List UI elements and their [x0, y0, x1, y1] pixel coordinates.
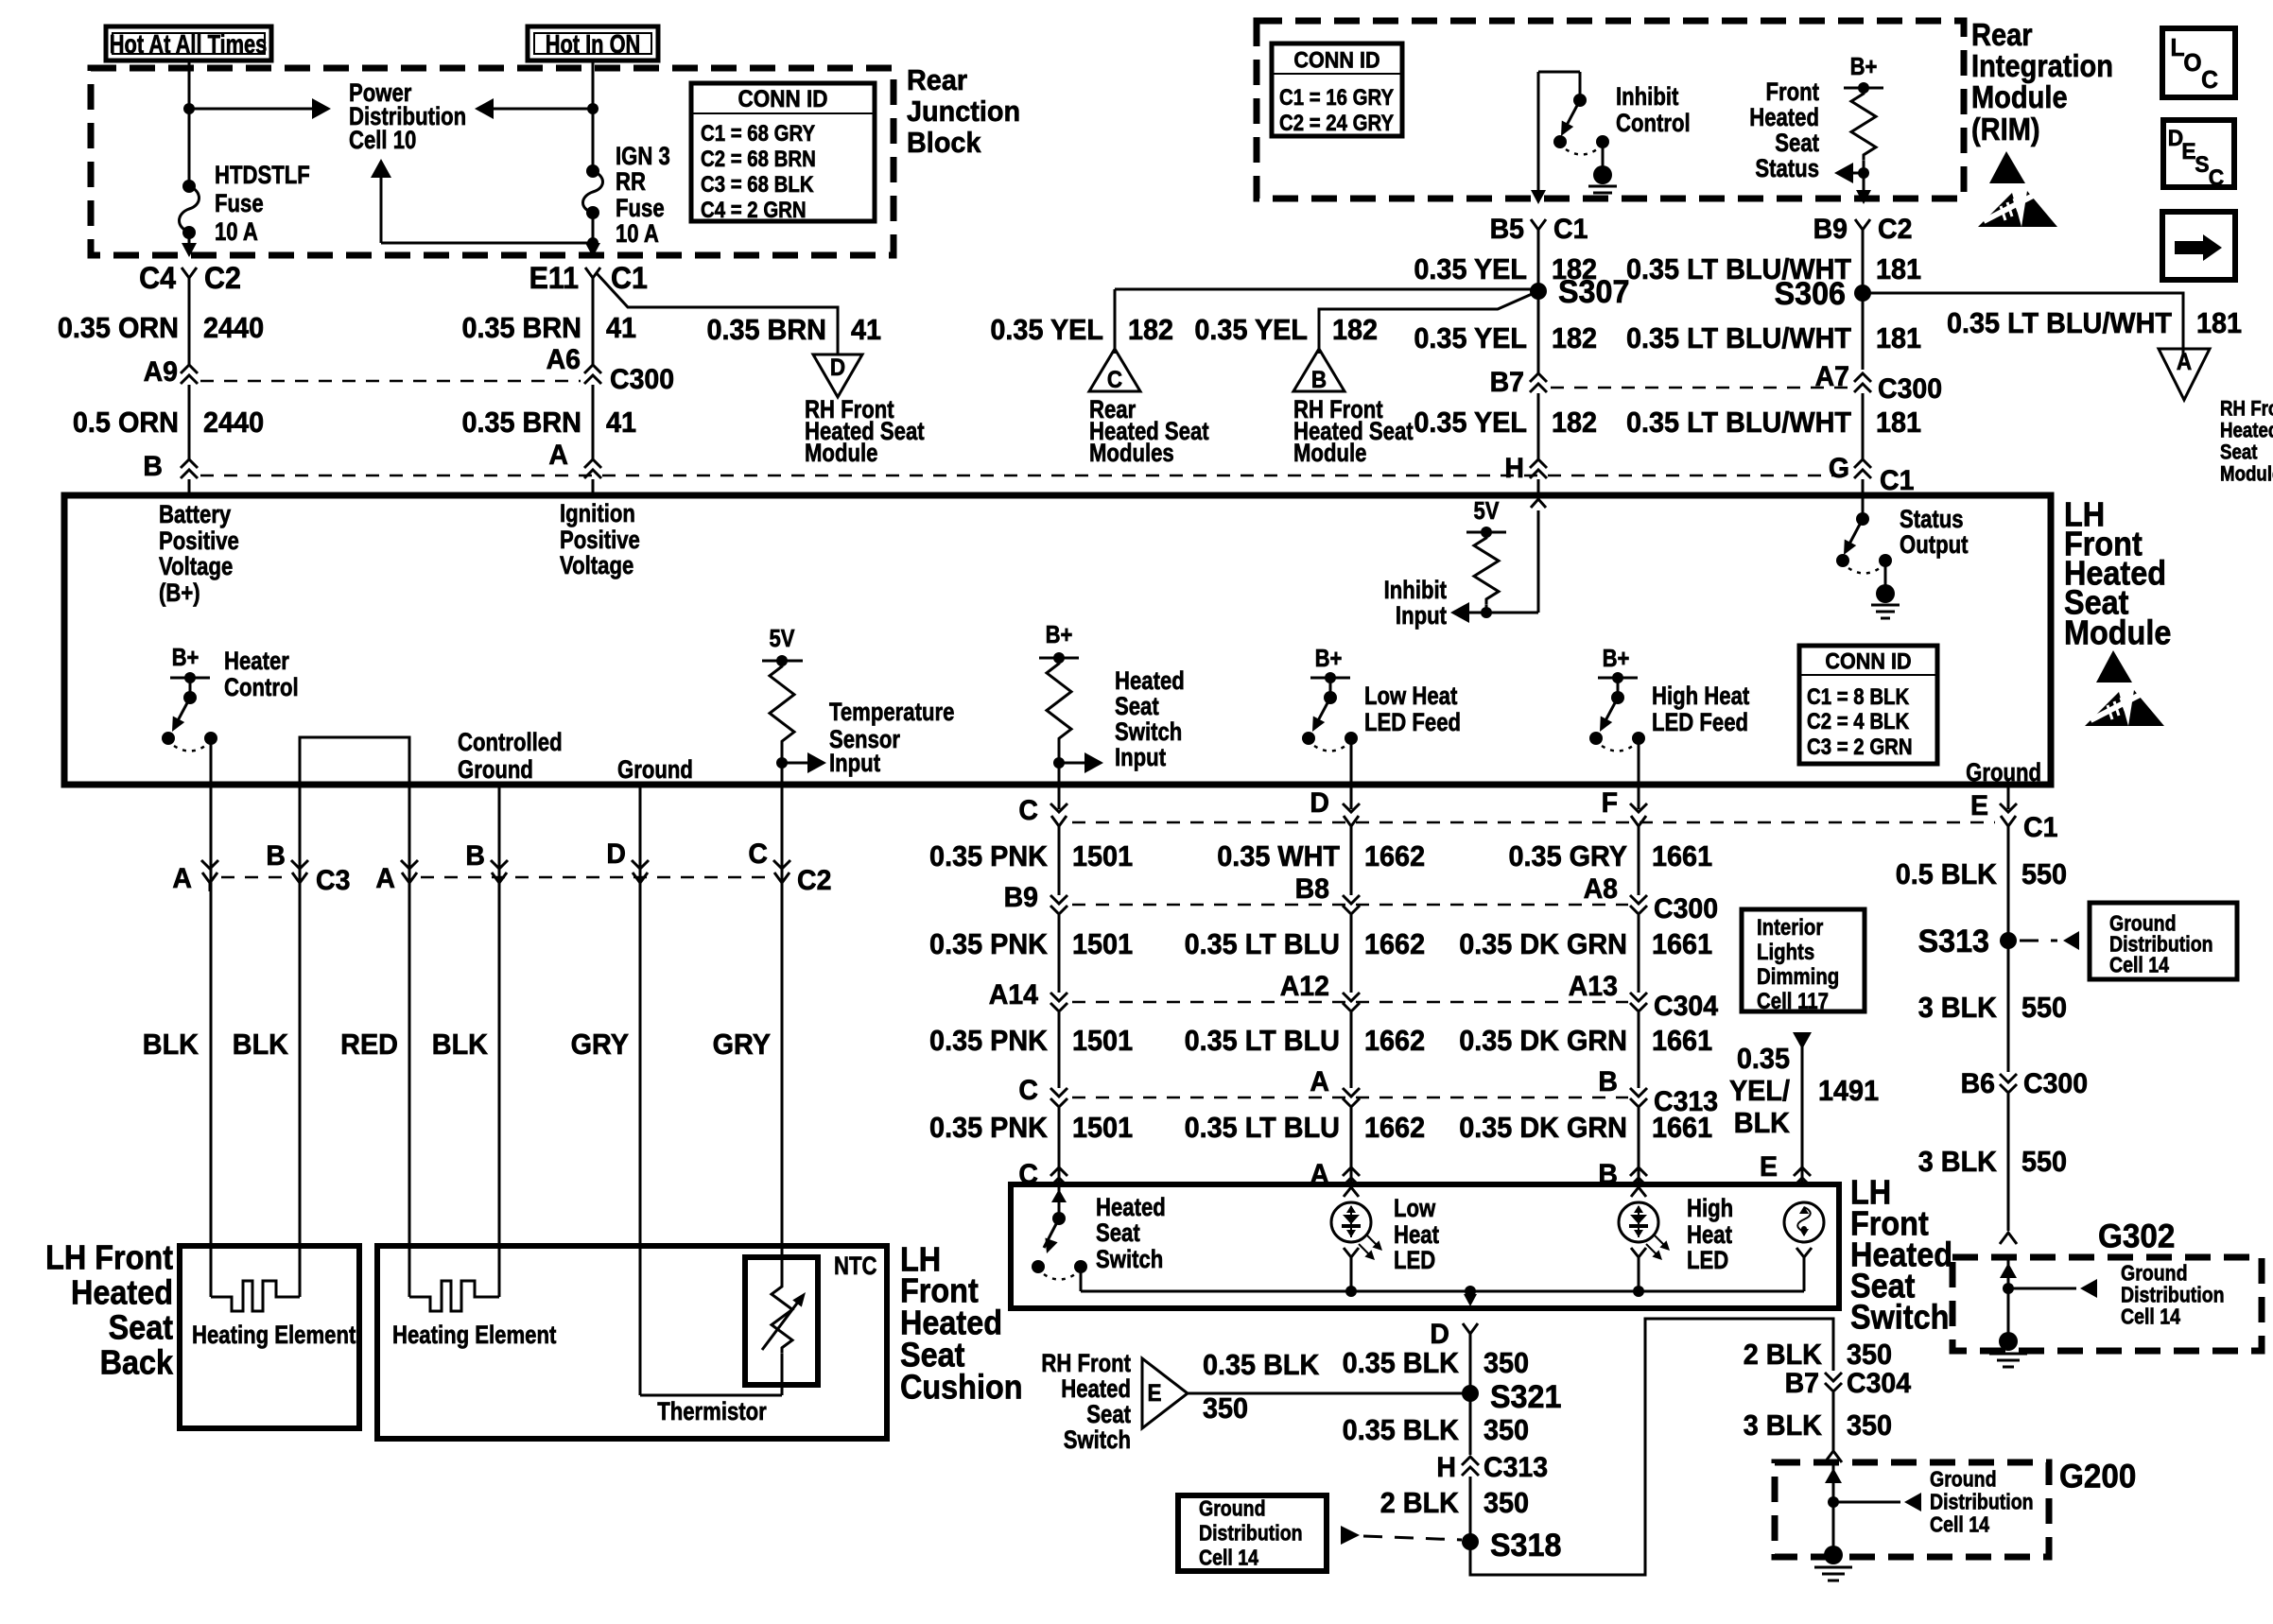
- svg-text:0.35 BLK: 0.35 BLK: [1203, 1349, 1320, 1381]
- svg-text:2440: 2440: [203, 312, 264, 344]
- svg-text:0.35 LT BLU: 0.35 LT BLU: [1185, 1112, 1340, 1144]
- label Heater Control: [224, 648, 299, 702]
- wire feedback to Power Distribution Cell 10: [371, 159, 593, 243]
- connector A C3: [172, 860, 218, 894]
- box Ground Distribution Cell 14 right: [2090, 903, 2237, 979]
- svg-text:RR: RR: [616, 168, 646, 197]
- svg-text:Cushion: Cushion: [900, 1369, 1023, 1407]
- svg-text:D: D: [830, 354, 845, 381]
- svg-text:C1: C1: [1880, 466, 1914, 497]
- connector A C1-module: [548, 441, 601, 478]
- wire ignition A6 to A: [592, 385, 595, 460]
- svg-text:C: C: [1107, 367, 1122, 393]
- svg-text:S321: S321: [1490, 1379, 1561, 1415]
- svg-text:3 BLK: 3 BLK: [1744, 1409, 1823, 1442]
- svg-text:A: A: [1310, 1067, 1329, 1098]
- svg-text:B9: B9: [1004, 883, 1038, 914]
- connector B6 C300: [1961, 1069, 2089, 1100]
- svg-text:(B+): (B+): [159, 579, 200, 608]
- wire D row2-3: [1350, 915, 1353, 993]
- svg-text:182: 182: [1128, 314, 1173, 346]
- wire bus exit D: [1464, 1291, 1477, 1306]
- svg-text:Switch: Switch: [1850, 1299, 1949, 1337]
- wire fuse output: [585, 213, 600, 257]
- label 1491: [1818, 1075, 1879, 1107]
- wire C304 to G200: [1832, 1392, 1835, 1451]
- svg-text:Output: Output: [1900, 531, 1968, 560]
- wire high heat output: [1638, 738, 1640, 782]
- arrow from interior lights: [1793, 1032, 1812, 1049]
- wire ignition feed from Hot In ON: [592, 60, 595, 171]
- label 0.35 YEL 182 triangle B: [1194, 314, 1378, 346]
- label 0.35 ORN 2440: [58, 312, 264, 344]
- svg-text:Seat: Seat: [2220, 441, 2258, 464]
- connector E switchbox: [1760, 1152, 1811, 1186]
- label NTC: [834, 1253, 877, 1281]
- dash arrow ground distribution: [2020, 931, 2079, 950]
- splice S313: [1918, 924, 2017, 959]
- svg-text:A13: A13: [1569, 972, 1618, 1003]
- wire heater control output: [210, 738, 213, 782]
- svg-text:GRY: GRY: [713, 1028, 771, 1061]
- svg-text:Junction: Junction: [907, 95, 1020, 128]
- svg-text:Modules: Modules: [1089, 440, 1174, 468]
- svg-text:0.35 LT BLU/WHT: 0.35 LT BLU/WHT: [1947, 307, 2172, 339]
- svg-text:B+: B+: [1315, 645, 1343, 672]
- svg-text:182: 182: [1552, 322, 1597, 354]
- svg-text:41: 41: [851, 314, 881, 346]
- svg-text:S307: S307: [1558, 274, 1629, 310]
- svg-text:C: C: [1018, 1160, 1038, 1191]
- svg-text:Heated: Heated: [1096, 1194, 1166, 1222]
- wire switch to bus: [1081, 1267, 1804, 1291]
- wire S313 down: [2007, 941, 2010, 1072]
- svg-text:Controlled: Controlled: [458, 729, 563, 757]
- svg-text:F: F: [1602, 788, 1618, 820]
- box Interior Lights Dimming Cell 117: [1742, 909, 1865, 1013]
- svg-text:Cell 10: Cell 10: [349, 127, 416, 155]
- label Thermistor: [657, 1398, 767, 1426]
- svg-text:BLK: BLK: [143, 1028, 200, 1061]
- label Ground pin E: [1966, 759, 2041, 787]
- svg-text:0.35 YEL: 0.35 YEL: [1194, 314, 1308, 346]
- svg-text:350: 350: [1484, 1347, 1529, 1379]
- label Temperature Sensor Input: [829, 699, 954, 778]
- label Ground Distribution Cell 14 G200: [1930, 1467, 2034, 1537]
- svg-text:Input: Input: [829, 750, 880, 778]
- wire G302 internal: [2000, 1257, 2017, 1341]
- svg-text:Module: Module: [1293, 440, 1366, 468]
- svg-text:B9: B9: [1813, 215, 1848, 246]
- svg-text:350: 350: [1484, 1414, 1529, 1446]
- svg-text:B: B: [1598, 1160, 1618, 1191]
- svg-text:Distribution: Distribution: [2121, 1283, 2225, 1307]
- svg-text:Heat: Heat: [1687, 1221, 1732, 1250]
- svg-text:RED: RED: [340, 1028, 398, 1061]
- connector A13 C304 row3: [1569, 972, 1719, 1023]
- connector A12 row3: [1280, 972, 1360, 1011]
- label 0.35 YEL 182 row1: [1414, 253, 1597, 285]
- label High Heat LED: [1687, 1195, 1733, 1275]
- svg-text:Thermistor: Thermistor: [657, 1398, 767, 1426]
- svg-text:H: H: [1436, 1453, 1456, 1484]
- wire triangle C drop: [1114, 289, 1117, 354]
- wire E C1 down: [2007, 828, 2010, 941]
- svg-text:C: C: [1018, 796, 1038, 827]
- label LH Front Heated Seat Cushion: [900, 1241, 1023, 1407]
- svg-text:Battery: Battery: [159, 501, 231, 529]
- svg-text:Seat: Seat: [109, 1309, 173, 1347]
- label RH Front Heated Seat Module (D): [805, 396, 925, 468]
- label 0.35 YEL/BLK: [1729, 1043, 1791, 1139]
- connector B C2: [465, 841, 508, 891]
- svg-text:A7: A7: [1815, 362, 1849, 393]
- label Rear Heated Seat Modules: [1089, 396, 1209, 468]
- svg-text:550: 550: [2021, 1146, 2067, 1178]
- svg-text:A8: A8: [1584, 874, 1618, 906]
- svg-text:Ground: Ground: [1930, 1467, 1997, 1492]
- dashed row3: [1072, 1001, 1628, 1004]
- connector A C2: [375, 860, 418, 894]
- svg-text:Input: Input: [1396, 602, 1447, 631]
- svg-text:C304: C304: [1654, 992, 1719, 1023]
- connector B C2-module: [143, 452, 198, 483]
- symbol ESD caution RIM: [1978, 151, 2057, 227]
- svg-text:A: A: [548, 441, 568, 472]
- svg-text:Seat: Seat: [1115, 693, 1159, 721]
- box LOC: [2162, 28, 2235, 97]
- svg-text:Heating Element: Heating Element: [192, 1322, 356, 1350]
- svg-text:Fuse: Fuse: [616, 195, 665, 223]
- wire ignition into module: [592, 479, 595, 495]
- label 0.35 BLK 350 above S321: [1343, 1347, 1529, 1379]
- svg-text:Seat: Seat: [1086, 1401, 1131, 1429]
- dashed C3 row: [221, 876, 287, 879]
- label 0.35 LT BLU 1662 row4: [1185, 1112, 1426, 1144]
- connector B9/C2: [1813, 215, 1913, 246]
- label 5V inhibit input: [1473, 497, 1499, 525]
- label 0.35 LT BLU/WHT 181 row1: [1626, 253, 1921, 285]
- svg-text:0.35 DK GRN: 0.35 DK GRN: [1459, 1112, 1627, 1144]
- svg-text:0.35 YEL: 0.35 YEL: [1414, 253, 1527, 285]
- wire C row1-2: [1058, 828, 1061, 895]
- label 0.35 LT BLU 1662 row2: [1185, 928, 1426, 960]
- resistor inhibit input: [1474, 532, 1499, 605]
- svg-text:Control: Control: [224, 674, 299, 702]
- svg-text:A9: A9: [144, 357, 178, 389]
- svg-text:0.35 LT BLU/WHT: 0.35 LT BLU/WHT: [1626, 322, 1851, 354]
- label Status Output: [1900, 506, 1968, 560]
- wire arrow to Power Distribution left: [475, 98, 593, 119]
- wire low heat output: [1350, 738, 1353, 782]
- svg-text:5V: 5V: [1473, 497, 1499, 525]
- table CONN ID RIM: [1272, 43, 1402, 136]
- svg-text:C1: C1: [1553, 215, 1588, 246]
- svg-text:0.35 YEL: 0.35 YEL: [1414, 322, 1527, 354]
- resistor temperature sensor: [770, 661, 794, 747]
- thermistor NTC: [762, 1281, 806, 1354]
- wire pin B2: [498, 787, 501, 1297]
- svg-text:High Heat: High Heat: [1652, 682, 1749, 711]
- svg-text:C1 = 68 GRY: C1 = 68 GRY: [701, 121, 815, 147]
- svg-text:1662: 1662: [1364, 1025, 1425, 1057]
- connector D row1: [1310, 788, 1360, 835]
- node status tap: [1858, 167, 1869, 179]
- label Inhibit Control: [1616, 83, 1691, 138]
- wire status resistor down: [1856, 161, 1871, 204]
- svg-text:Heat: Heat: [1394, 1221, 1439, 1250]
- label Battery Positive Voltage: [159, 501, 239, 608]
- svg-text:BLK: BLK: [233, 1028, 289, 1061]
- resistor front heated seat status: [1851, 88, 1876, 161]
- dashed row1: [1072, 821, 1995, 824]
- label 0.35 BLK over 350: [1203, 1349, 1320, 1425]
- dashed line C300 right: [1551, 387, 1849, 389]
- svg-text:S: S: [2195, 152, 2209, 178]
- node ignition feed junction: [587, 103, 599, 114]
- rail 5V inhibit: [1466, 527, 1506, 538]
- label 2 BLK 350 S318: [1380, 1487, 1529, 1519]
- svg-text:Positive: Positive: [560, 527, 640, 555]
- label Rear Integration Module (RIM): [1971, 17, 2113, 147]
- rail B+ status: [1844, 82, 1883, 94]
- svg-text:A: A: [2177, 349, 2192, 375]
- svg-text:B: B: [266, 841, 286, 872]
- label B+ heated seat switch input: [1046, 621, 1073, 648]
- svg-text:350: 350: [1847, 1409, 1892, 1442]
- svg-text:BLK: BLK: [432, 1028, 489, 1061]
- label 0.35 YEL 182 triangle C: [990, 314, 1173, 346]
- svg-text:Ground: Ground: [2121, 1261, 2188, 1286]
- svg-text:B6: B6: [1961, 1069, 1995, 1100]
- svg-text:0.35 BRN: 0.35 BRN: [706, 314, 826, 346]
- svg-text:1661: 1661: [1652, 1025, 1712, 1057]
- wire G302 arrow: [2008, 1279, 2097, 1298]
- svg-text:Inhibit: Inhibit: [1384, 577, 1447, 605]
- symbol internal bridge controlled ground: [300, 737, 409, 782]
- wire C row4-box: [1058, 1108, 1061, 1184]
- svg-text:0.35: 0.35: [1737, 1043, 1790, 1075]
- svg-text:H: H: [1504, 454, 1524, 485]
- svg-text:Heated: Heated: [1115, 667, 1185, 696]
- svg-text:B7: B7: [1490, 368, 1524, 399]
- label RH Front Heated Seat Module (B): [1293, 396, 1414, 468]
- triangle C Rear Heated Seat Modules: [1089, 349, 1140, 393]
- label 0.35 BLK 350 below S321: [1343, 1414, 1529, 1446]
- svg-text:0.35 BRN: 0.35 BRN: [461, 312, 581, 344]
- svg-text:0.35 GRY: 0.35 GRY: [1509, 840, 1628, 872]
- label IGN 3 RR Fuse 10 A: [616, 143, 670, 249]
- wire lamp to bus: [1796, 1248, 1812, 1291]
- box Hot In ON: [528, 26, 658, 60]
- dashed line C300 left: [200, 380, 581, 383]
- wire F row1-2: [1638, 828, 1640, 895]
- wire pin B to element: [299, 787, 302, 1297]
- svg-text:C1: C1: [611, 261, 648, 295]
- label 0.35 DK GRN 1661 row2: [1459, 928, 1712, 960]
- wire thermistor to return: [781, 1354, 784, 1395]
- wire pin C switch: [1058, 787, 1061, 809]
- svg-text:B: B: [1598, 1067, 1618, 1098]
- wire B5 exit arrow: [1531, 190, 1546, 204]
- svg-text:Module: Module: [1971, 79, 2068, 114]
- svg-text:Lights: Lights: [1757, 940, 1814, 965]
- svg-text:1662: 1662: [1364, 840, 1425, 872]
- svg-text:B7: B7: [1785, 1369, 1819, 1400]
- wire inhibit control feed: [1538, 72, 1580, 201]
- svg-text:181: 181: [1876, 406, 1921, 439]
- svg-text:350: 350: [1203, 1392, 1248, 1425]
- label 0.35 BRN 41 ignition: [461, 312, 636, 344]
- svg-text:182: 182: [1552, 406, 1597, 439]
- svg-text:C: C: [748, 839, 768, 871]
- wire G200 arrow: [1833, 1493, 1921, 1512]
- svg-text:High: High: [1687, 1195, 1733, 1223]
- box Hot At All Times: [106, 26, 271, 60]
- svg-text:IGN 3: IGN 3: [616, 143, 670, 171]
- label RH Front Heated Seat Module (A): [2220, 398, 2273, 486]
- svg-text:2 BLK: 2 BLK: [1744, 1339, 1823, 1371]
- svg-text:0.35 LT BLU: 0.35 LT BLU: [1185, 928, 1340, 960]
- wire inhibit to H pin: [1486, 499, 1546, 613]
- connector C4/C2: [139, 261, 241, 295]
- connector C C2: [748, 839, 831, 897]
- svg-text:E: E: [1147, 1380, 1161, 1407]
- svg-text:A: A: [375, 864, 395, 895]
- label BLK wire A: [143, 1028, 200, 1061]
- arrow heated seat switch input: [1059, 752, 1103, 773]
- svg-text:181: 181: [1876, 253, 1921, 285]
- svg-text:Cell 14: Cell 14: [2121, 1304, 2180, 1329]
- wire H to S318: [1469, 1477, 1472, 1542]
- junction block: Rear Junction Block dashed box: [91, 68, 894, 255]
- connector B8 row2: [1295, 874, 1360, 914]
- wire fuse output to connector: [182, 233, 197, 257]
- svg-text:CONN ID: CONN ID: [1293, 46, 1379, 72]
- connector G200 entry: [1825, 1451, 1842, 1462]
- svg-text:C304: C304: [1847, 1369, 1912, 1400]
- wire low LED to bus: [1344, 1248, 1359, 1297]
- svg-text:Cell 117: Cell 117: [1757, 989, 1829, 1014]
- svg-text:C3 = 68 BLK: C3 = 68 BLK: [701, 172, 814, 198]
- svg-text:Positive: Positive: [159, 527, 239, 556]
- svg-text:Integration: Integration: [1971, 48, 2113, 83]
- svg-text:RH Front: RH Front: [2220, 398, 2273, 421]
- wire B6 down: [2007, 1094, 2010, 1231]
- wire pin D gry: [639, 787, 642, 1395]
- component box LH Front Heated Seat Cushion: [377, 1246, 887, 1439]
- label RED wire A2: [340, 1028, 398, 1061]
- component box NTC thermistor: [745, 1257, 818, 1385]
- wire G200 internal: [1825, 1462, 1842, 1555]
- label Heated Seat Switch Input: [1115, 667, 1185, 772]
- wire D to S321: [1469, 1342, 1472, 1393]
- svg-text:Dimming: Dimming: [1757, 964, 1839, 990]
- label 0.35 LT BLU/WHT 181 row3: [1626, 406, 1921, 439]
- node G200 junction: [1828, 1496, 1839, 1508]
- svg-text:E: E: [2181, 139, 2195, 164]
- svg-text:Back: Back: [100, 1344, 174, 1382]
- wire pin A heater to element: [210, 787, 213, 1297]
- connector A7 C300: [1815, 362, 1943, 406]
- svg-text:A: A: [172, 864, 192, 895]
- label G302: [2098, 1218, 2175, 1255]
- svg-text:Ground: Ground: [458, 756, 533, 785]
- svg-text:3 BLK: 3 BLK: [1918, 1146, 1998, 1178]
- svg-text:Front: Front: [1765, 78, 1819, 107]
- fuse HTDSTLF Fuse 10 A: [180, 180, 200, 239]
- wire S307 vertical: [1537, 238, 1540, 374]
- label 0.35 PNK 1501 row3: [929, 1025, 1133, 1057]
- svg-text:Heated: Heated: [1061, 1375, 1131, 1404]
- wire D row3-4: [1350, 1012, 1353, 1088]
- wire inhibit resistor to node: [1485, 605, 1488, 613]
- node G302 junction: [2003, 1283, 2014, 1294]
- label 0.35 LT BLU 1662 row3: [1185, 1025, 1426, 1057]
- svg-text:Low: Low: [1394, 1195, 1436, 1223]
- connector A14 row3: [989, 980, 1067, 1011]
- rail 5V temperature: [762, 655, 803, 666]
- svg-text:GRY: GRY: [571, 1028, 629, 1061]
- connector A9 C300: [144, 357, 198, 389]
- svg-text:D: D: [1430, 1320, 1449, 1351]
- wire arrow to Power Distribution: [189, 98, 331, 119]
- svg-text:C3 = 2 GRN: C3 = 2 GRN: [1807, 734, 1913, 760]
- label B+ heater control: [172, 644, 200, 671]
- wire H into module: [1537, 479, 1540, 495]
- svg-text:Voltage: Voltage: [159, 553, 233, 581]
- svg-text:HTDSTLF: HTDSTLF: [215, 162, 310, 190]
- svg-text:Heated: Heated: [1749, 104, 1819, 132]
- label G200: [2059, 1459, 2136, 1495]
- triangle A RH Front Heated Seat Module: [2159, 349, 2210, 400]
- switch Heater Control: [162, 672, 217, 752]
- svg-text:0.35 ORN: 0.35 ORN: [58, 312, 179, 344]
- svg-text:C1: C1: [2023, 813, 2057, 844]
- svg-text:L: L: [2170, 35, 2184, 62]
- node ign feed to cell 10: [587, 237, 599, 249]
- svg-text:C313: C313: [1484, 1453, 1548, 1484]
- symbol ESD caution module: [2085, 650, 2164, 726]
- svg-text:C1 = 8 BLK: C1 = 8 BLK: [1807, 684, 1909, 710]
- wire branch E11 to RH module: [596, 272, 838, 354]
- svg-text:B: B: [465, 841, 485, 872]
- svg-text:0.35 BRN: 0.35 BRN: [461, 406, 581, 439]
- box Ground Distribution Cell 14 left: [1178, 1495, 1327, 1571]
- svg-text:3 BLK: 3 BLK: [1918, 992, 1998, 1024]
- svg-text:C: C: [2209, 165, 2225, 191]
- led High Heat LED: [1619, 1187, 1670, 1260]
- connector H C313: [1436, 1453, 1548, 1484]
- svg-text:1661: 1661: [1652, 928, 1712, 960]
- switch Status Output: [1836, 512, 1900, 618]
- svg-text:1661: 1661: [1652, 840, 1712, 872]
- switch High Heat LED Feed: [1589, 672, 1645, 752]
- label 5V temperature sensor: [769, 625, 794, 652]
- svg-text:G302: G302: [2098, 1218, 2175, 1255]
- svg-text:41: 41: [606, 406, 636, 439]
- node battery feed junction: [183, 103, 195, 114]
- svg-text:B+: B+: [1046, 621, 1073, 648]
- wire status pivot feed: [1862, 495, 1865, 519]
- svg-text:Cell 14: Cell 14: [1930, 1512, 1989, 1537]
- splice S306: [1775, 276, 1871, 312]
- wire S318 to C304: [1470, 1319, 1833, 1575]
- switch Heated Seat Switch: [1032, 1187, 1087, 1280]
- svg-text:Fuse: Fuse: [215, 190, 264, 218]
- label 0.35 YEL 182 row3: [1414, 406, 1597, 439]
- label Power Distribution Cell 10: [349, 79, 466, 155]
